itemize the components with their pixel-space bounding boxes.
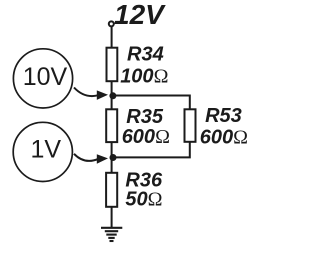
svg-text:600Ω: 600Ω [200,127,248,149]
svg-text:R53: R53 [205,105,242,127]
svg-text:100Ω: 100Ω [120,66,168,88]
svg-text:1V: 1V [31,136,62,164]
svg-text:50Ω: 50Ω [125,189,162,211]
svg-text:10V: 10V [23,63,68,91]
svg-text:R34: R34 [127,44,164,66]
svg-text:12V: 12V [114,0,166,30]
svg-text:R35: R35 [126,106,164,128]
svg-text:600Ω: 600Ω [122,126,170,148]
